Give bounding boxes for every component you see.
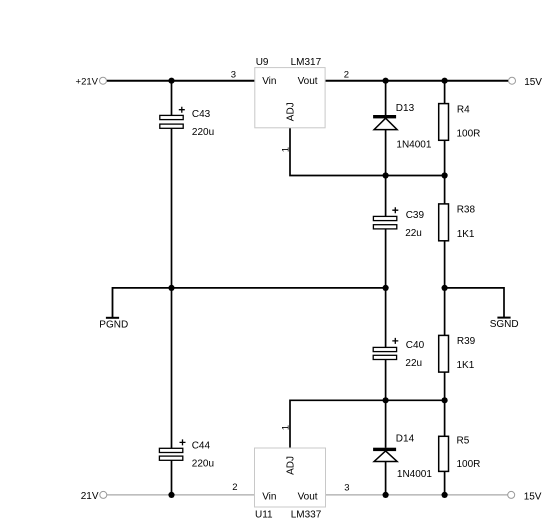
svg-text:220u: 220u xyxy=(192,127,214,138)
wire D13/C39/C40/D14 column x=385.6 xyxy=(385,81,387,116)
svg-text:1K1: 1K1 xyxy=(457,360,475,371)
svg-text:1N4001: 1N4001 xyxy=(396,139,431,150)
capacitor C43 220u xyxy=(160,115,183,119)
svg-text:C44: C44 xyxy=(192,440,211,451)
svg-text:R5: R5 xyxy=(457,436,470,447)
svg-text:U9: U9 xyxy=(256,57,269,68)
svg-text:C43: C43 xyxy=(192,109,211,120)
svg-text:22u: 22u xyxy=(405,228,422,239)
node 15V terminal top xyxy=(509,77,516,84)
svg-text:Vout: Vout xyxy=(298,76,318,87)
ground SGND xyxy=(497,317,510,319)
resistor R39 1K1 xyxy=(439,335,449,372)
resistor R4 100R xyxy=(439,104,449,141)
ground PGND xyxy=(106,317,119,319)
resistor R5 100R xyxy=(439,436,449,471)
svg-text:SGND: SGND xyxy=(490,319,519,330)
svg-text:100R: 100R xyxy=(457,459,481,470)
wire bottom rail left (21V to Vin of LM337, gray) xyxy=(107,494,255,496)
svg-text:2: 2 xyxy=(232,482,237,493)
node 21V terminal bottom xyxy=(100,491,107,498)
svg-text:U11: U11 xyxy=(255,510,273,521)
svg-text:LM337: LM337 xyxy=(291,510,322,521)
diode D13 1N4001 xyxy=(373,115,396,118)
svg-text:LM317: LM317 xyxy=(291,57,322,68)
svg-text:1: 1 xyxy=(281,425,292,430)
svg-text:2: 2 xyxy=(344,70,349,81)
capacitor C39 22u xyxy=(373,216,396,220)
svg-text:D13: D13 xyxy=(396,103,415,114)
svg-text:21V: 21V xyxy=(81,491,99,502)
wire SGND stub xyxy=(445,288,504,318)
node 15V terminal bottom xyxy=(508,491,515,498)
svg-text:+21V: +21V xyxy=(76,76,99,87)
svg-text:D14: D14 xyxy=(396,434,415,445)
svg-text:R4: R4 xyxy=(457,105,470,116)
wire bottom rail right (Vout of LM337 to 15V terminal, gray) xyxy=(326,494,508,496)
svg-text:ADJ: ADJ xyxy=(286,456,297,475)
svg-text:C40: C40 xyxy=(406,340,425,351)
svg-text:R39: R39 xyxy=(457,336,476,347)
node junction dots xyxy=(168,78,174,84)
svg-text:1: 1 xyxy=(281,147,292,152)
svg-text:PGND: PGND xyxy=(99,320,128,331)
svg-text:Vin: Vin xyxy=(262,491,276,502)
resistor R38 1K1 xyxy=(439,204,449,241)
svg-text:ADJ: ADJ xyxy=(286,102,297,121)
wire R4/R38/R39/R5 column x=444.6 xyxy=(444,81,446,104)
wire top rail left (+21V to Vin) xyxy=(107,80,255,82)
node +21V terminal xyxy=(100,77,107,84)
svg-text:220u: 220u xyxy=(192,459,214,470)
capacitor C44 220u xyxy=(159,448,182,452)
wire ADJ net of U9 (pin1 rail y=175.5) xyxy=(290,128,445,176)
svg-text:15V: 15V xyxy=(524,77,542,88)
wire top rail right (Vout to +15V terminal) xyxy=(325,80,508,82)
svg-text:Vout: Vout xyxy=(298,491,318,502)
svg-text:15V: 15V xyxy=(524,492,542,503)
op-amp U9 regulator LM317 box xyxy=(255,68,325,128)
capacitor C40 22u xyxy=(373,347,396,351)
op-amp U11 regulator LM337 box xyxy=(255,448,326,507)
svg-text:3: 3 xyxy=(231,70,236,81)
svg-text:100R: 100R xyxy=(457,129,481,140)
wire PGND mid rail y=287.9 xyxy=(113,288,386,318)
wire ADJ net of U11 (pin1 rail y=400.3) xyxy=(290,400,445,448)
svg-text:22u: 22u xyxy=(405,358,422,369)
svg-text:1K1: 1K1 xyxy=(457,229,475,240)
svg-text:1N4001: 1N4001 xyxy=(397,469,432,480)
wire C43/C44 column x=171.5 xyxy=(171,81,173,116)
svg-text:R38: R38 xyxy=(457,205,476,216)
svg-text:3: 3 xyxy=(344,483,349,494)
diode D14 1N4001 xyxy=(373,448,396,451)
svg-text:Vin: Vin xyxy=(262,76,276,87)
svg-text:C39: C39 xyxy=(406,210,425,221)
